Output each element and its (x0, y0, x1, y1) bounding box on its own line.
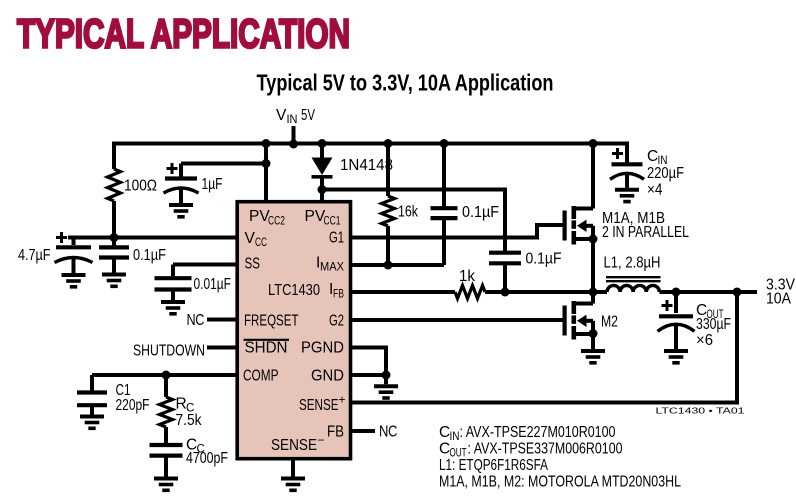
svg-text:1N4148: 1N4148 (340, 157, 393, 174)
svg-text:16k: 16k (398, 204, 418, 221)
resistor RC 7.5k (160, 397, 173, 427)
node M1 source (589, 235, 598, 244)
svg-text:1µF: 1µF (202, 176, 223, 193)
transistor Q1 M1A/M1B (563, 206, 594, 245)
svg-text:M1A, M1B, M2: MOTOROLA MTD20N0: M1A, M1B, M2: MOTOROLA MTD20N03HL (439, 474, 681, 491)
label IC name LTC1430 (268, 282, 320, 299)
label 1k value (459, 268, 475, 285)
label COUT labels (696, 302, 731, 349)
wire 0.1uF(b) bottom stub (503, 265, 507, 293)
wire VIN rail (114, 144, 627, 238)
label pin PVCC1 (305, 208, 341, 228)
node switch node (589, 288, 598, 297)
wire diode anode stub (320, 144, 324, 159)
wire COUT ground stub (674, 325, 678, 349)
label pin PGND (301, 340, 344, 357)
wire 1uF ground stub (179, 189, 183, 204)
label NC (FREQSET) (187, 312, 205, 329)
label 0.1µF(a) value (462, 204, 499, 221)
node rail/M1-drain (589, 139, 598, 148)
capacitor CC 4700pF (150, 445, 183, 456)
op-amp U1 LTC1430 controller IC body (237, 202, 350, 459)
wire SS wire (173, 265, 237, 277)
wire CIN top wire (625, 142, 629, 164)
label RC labels (176, 396, 202, 430)
svg-text:V: V (276, 107, 287, 124)
label M2 label (601, 314, 618, 331)
wire PGND wire (352, 348, 386, 376)
svg-text:NC: NC (187, 312, 205, 329)
ground ground CIN (615, 190, 639, 202)
wire output wire (659, 290, 757, 294)
svg-text:LTC1430 • TA01: LTC1430 • TA01 (656, 405, 745, 415)
node 1uF/PVCC2 (262, 159, 271, 168)
wire GND ground stub (384, 375, 388, 384)
resistor 1k (455, 286, 485, 299)
label pin FREQSET (244, 312, 299, 329)
label 1µF value (202, 176, 223, 193)
wire 0.1uF(c) top stub (112, 238, 116, 247)
wire M1 drain to rail (591, 144, 595, 209)
wire G2 wire (352, 318, 563, 322)
wire G1 wire (352, 225, 563, 238)
node rail/diode (318, 139, 327, 148)
ground ground C1 (80, 417, 104, 429)
svg-text:100Ω: 100Ω (124, 178, 157, 195)
svg-text:×6: ×6 (696, 332, 713, 349)
ground ground 1uF (169, 205, 193, 217)
wire RC top wire (164, 375, 168, 397)
wire 16k top wire (386, 144, 390, 266)
svg-text:G2: G2 (329, 312, 344, 329)
node GND/PGND (382, 371, 391, 380)
svg-text:0.1µF: 0.1µF (526, 251, 562, 268)
ground ground COUT (664, 351, 688, 363)
wire IMAX wire (352, 263, 444, 267)
label pin VCC (245, 230, 268, 249)
label C1 labels (116, 382, 150, 414)
label pin SENSE+ (299, 393, 346, 415)
node M2 source (589, 329, 598, 338)
label 1N4148 value (340, 157, 393, 174)
wire COMP wire (92, 375, 237, 391)
svg-text:LTC1430: LTC1430 (268, 282, 320, 299)
svg-text:0.1µF: 0.1µF (133, 247, 166, 264)
svg-text:0.1µF: 0.1µF (462, 204, 499, 221)
svg-text:10A: 10A (766, 291, 792, 308)
ground ground 0.1uF(c) (102, 275, 126, 287)
capacitor C1 220pF (77, 393, 107, 406)
wire switch node wire (485, 290, 607, 294)
node VCC/100ohm (110, 233, 119, 242)
svg-text:G1: G1 (329, 230, 344, 247)
inductor L1 core bars (606, 277, 661, 281)
wire M2 source wire (591, 321, 595, 349)
wire IFB wire left (352, 290, 455, 294)
svg-text:SHDN: SHDN (245, 340, 288, 357)
svg-text:L1, 2.8µH: L1, 2.8µH (604, 255, 661, 272)
svg-text:0.01µF: 0.01µF (194, 276, 232, 293)
ground ground GND pin (374, 386, 398, 398)
wire 0.01uF ground stub (171, 291, 175, 301)
svg-text:FREQSET: FREQSET (244, 312, 299, 329)
label 0.1µF(c) value (133, 247, 166, 264)
wire M2 drain wire (591, 292, 595, 304)
capacitor 0.1µF (a) (431, 208, 458, 218)
label pin GND (311, 368, 344, 385)
svg-text:330µF: 330µF (696, 316, 731, 333)
svg-text:IN: IN (450, 431, 460, 443)
node switch/0.1uF-b (501, 288, 510, 297)
label output 3.3V 10A (766, 277, 796, 308)
label 100Ω value (124, 178, 157, 195)
transistor Q2 M2 (563, 301, 594, 340)
label M1 labels (602, 210, 689, 241)
svg-text:NC: NC (379, 424, 397, 441)
diode D1 1N4148 (312, 158, 333, 177)
label pin PVCC2 (249, 208, 285, 228)
wire VCC wire (68, 238, 237, 246)
node diode-cathode node (318, 185, 327, 194)
capacitor COUT 330µF (polarized) (658, 300, 695, 331)
wire 0.1uF(a) wires (442, 144, 446, 266)
capacitor 0.1µF (c) (99, 247, 129, 257)
resistor 100Ω (108, 169, 121, 201)
svg-text:M2: M2 (601, 314, 618, 331)
svg-text:7.5k: 7.5k (176, 412, 202, 429)
label pin COMP (243, 368, 279, 385)
label pin IFB (329, 281, 344, 300)
label SHUTDOWN (133, 343, 205, 360)
wire CIN ground stub (625, 174, 629, 188)
wire C1 ground stub (90, 407, 94, 415)
label 16k value (398, 204, 418, 221)
capacitor 4.7µF (polarized) (55, 232, 93, 263)
wire diode cathode to PVCC1 (320, 177, 324, 200)
ground ground 4.7uF (62, 275, 86, 287)
svg-text:TYPICAL APPLICATION: TYPICAL APPLICATION (17, 11, 350, 57)
label pin FB (327, 424, 344, 441)
svg-text:L1: ETQP6F1R6SFA: L1: ETQP6F1R6SFA (439, 457, 548, 474)
ground ground M2 source (581, 351, 605, 363)
pin SHDN with overline (244, 340, 290, 357)
wire 1uF top wire (181, 164, 266, 178)
label 4.7µF value (18, 247, 51, 264)
svg-text:Typical 5V to 3.3V, 10A Applic: Typical 5V to 3.3V, 10A Application (257, 70, 554, 96)
label pin G1 (329, 230, 344, 247)
label pin IMAX (316, 255, 344, 274)
svg-text:5V: 5V (301, 107, 315, 124)
svg-text:V: V (245, 230, 256, 247)
label schematic id (656, 405, 745, 415)
svg-text:SENSE: SENSE (271, 437, 317, 454)
svg-text:PGND: PGND (301, 340, 344, 357)
svg-text:4700pF: 4700pF (186, 450, 228, 467)
capacitor 0.1µF (b) (489, 253, 521, 264)
svg-text:SHUTDOWN: SHUTDOWN (133, 343, 205, 360)
wire RC to CC wire (164, 427, 168, 443)
node IMAX/16k (384, 261, 393, 270)
svg-text:SENSE: SENSE (299, 397, 339, 414)
svg-text:GND: GND (311, 368, 344, 385)
svg-text:4.7µF: 4.7µF (18, 247, 51, 264)
label pin SENSE- (271, 433, 325, 454)
node out/SENSE+ (733, 288, 742, 297)
wire SENSE- stub (291, 458, 295, 477)
capacitor 1µF (polarized) (164, 163, 199, 193)
label pin SS (245, 256, 261, 273)
svg-text:+: + (339, 393, 346, 407)
svg-text:2 IN PARALLEL: 2 IN PARALLEL (602, 224, 689, 241)
svg-text:COMP: COMP (243, 368, 279, 385)
svg-text:: AVX-TPSE337M006R0100: : AVX-TPSE337M006R0100 (468, 441, 623, 458)
node rail/16k (384, 139, 393, 148)
wire PVCC1 node to 0.1uF#2 (322, 190, 505, 252)
label CC labels (186, 437, 228, 468)
label net VIN 5V (276, 107, 315, 126)
wire FB stub (352, 429, 375, 433)
svg-text:IN: IN (287, 114, 298, 126)
svg-text:220pF: 220pF (116, 397, 150, 414)
svg-text:MAX: MAX (320, 262, 344, 274)
ground ground 0.01uF (161, 302, 185, 314)
node COMP/RC (162, 371, 171, 380)
ground ground SENSE- (281, 479, 305, 491)
wire CC ground stub (164, 457, 168, 477)
wire M1 source to switch node (591, 226, 595, 292)
label NC (FB) (379, 424, 397, 441)
svg-text:: AVX-TPSE227M010R0100: : AVX-TPSE227M010R0100 (460, 424, 616, 441)
notes list (439, 424, 681, 491)
node rail/0.1uF-a (440, 139, 449, 148)
svg-text:1k: 1k (459, 268, 475, 285)
svg-text:FB: FB (333, 288, 344, 300)
wire GND wire (352, 373, 386, 377)
node out/COUT (672, 288, 681, 297)
svg-text:FB: FB (327, 424, 344, 441)
label pin G2 (329, 312, 344, 329)
svg-text:−: − (318, 433, 325, 447)
svg-text:SS: SS (245, 256, 261, 273)
wire FREQSET NC dash (207, 318, 237, 322)
svg-text:CC: CC (255, 237, 267, 249)
label 0.1µF(b) value (526, 251, 562, 268)
inductor L1 coils (607, 285, 659, 292)
wire SENSE+ feedback wire (352, 292, 737, 403)
wire PVCC2 pin stub (264, 144, 268, 201)
svg-text:CC2: CC2 (268, 216, 285, 228)
node rail/VIN (289, 140, 298, 149)
capacitor CIN 220µF (polarized) (610, 148, 644, 179)
svg-text:CC1: CC1 (324, 216, 341, 228)
wire SHDN wire (207, 346, 237, 350)
node rail/PVCC2 (262, 139, 271, 148)
wire VIN stub (292, 126, 296, 144)
label L1 value (604, 255, 661, 272)
wire 0.1uF(c) ground stub (112, 259, 116, 273)
wire COUT top stub (674, 292, 678, 313)
capacitor 0.01µF (155, 278, 192, 289)
resistor 16k (382, 196, 395, 226)
wire 4.7uF ground stub (72, 258, 76, 273)
label CIN labels (647, 148, 684, 199)
svg-text:220µF: 220µF (647, 165, 684, 182)
ground ground CC (154, 479, 178, 491)
svg-text:×4: ×4 (647, 182, 663, 199)
label 0.01µF value (194, 276, 232, 293)
